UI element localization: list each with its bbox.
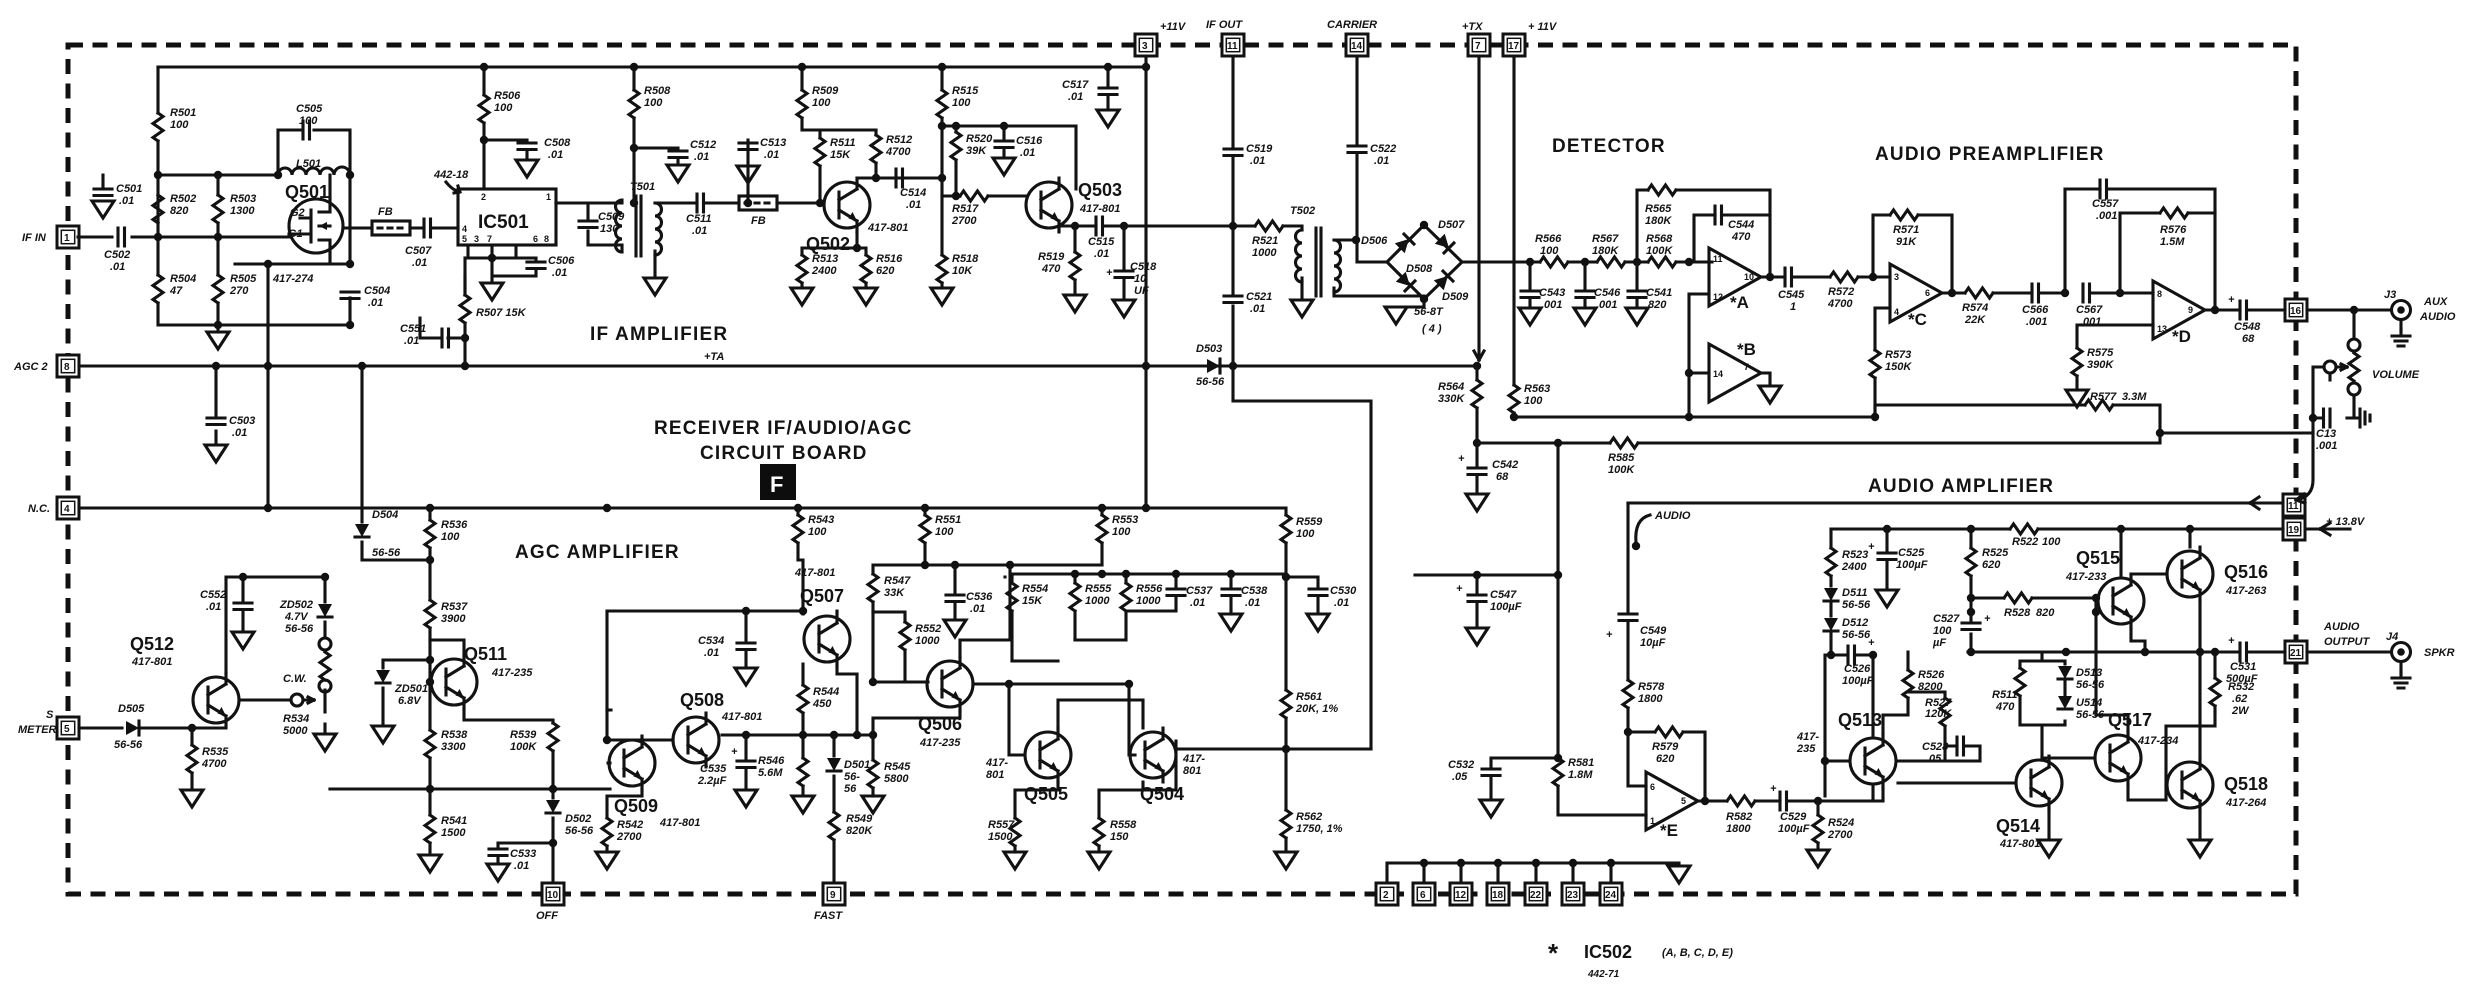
- svg-text:C.W.: C.W.: [283, 673, 307, 685]
- svg-text:442-71: 442-71: [1587, 969, 1620, 980]
- wire: AGC node bus: [330, 787, 610, 790]
- resistor R545 5800: [868, 760, 878, 788]
- wire: T501 secondary: [622, 203, 697, 278]
- wire: audio feed line to connector 11: [1628, 497, 2283, 509]
- svg-text:180K: 180K: [1645, 215, 1672, 227]
- wire: Q513 base/emitter: [1825, 655, 1883, 801]
- svg-text:C546: C546: [1594, 287, 1621, 299]
- svg-text:*: *: [1548, 938, 1559, 968]
- svg-text:9: 9: [830, 890, 836, 901]
- capacitor C517 .01: [1106, 67, 1109, 110]
- svg-text:Q512: Q512: [130, 634, 174, 654]
- capacitor C530 .01: [1286, 577, 1318, 614]
- svg-text:.01: .01: [404, 335, 419, 347]
- svg-text:+TX: +TX: [1462, 21, 1483, 33]
- svg-text:417-801: 417-801: [794, 567, 835, 579]
- wire: T502 secondary to bridge: [1334, 240, 1424, 299]
- svg-text:.001: .001: [1541, 299, 1562, 311]
- svg-text:D511: D511: [1842, 587, 1867, 599]
- svg-text:100µF: 100µF: [1778, 823, 1810, 835]
- svg-text:R536: R536: [441, 519, 468, 531]
- capacitor C545 1: [1785, 268, 1792, 286]
- svg-text:C528: C528: [1922, 741, 1949, 753]
- svg-text:Q503: Q503: [1078, 180, 1122, 200]
- svg-text:33K: 33K: [884, 587, 905, 599]
- wire: opamp E output: [1698, 786, 1873, 801]
- svg-text:.01: .01: [1245, 597, 1260, 609]
- svg-text:.01: .01: [1094, 248, 1109, 260]
- svg-text:56-56: 56-56: [1842, 629, 1871, 641]
- wire: IF OUT column: [1233, 56, 1371, 749]
- svg-text:C566: C566: [2022, 304, 2049, 316]
- svg-text:.01: .01: [906, 199, 921, 211]
- ground: C503: [205, 445, 227, 462]
- svg-text:3.3M: 3.3M: [2122, 391, 2147, 403]
- svg-text:T502: T502: [1290, 205, 1315, 217]
- svg-text:5000: 5000: [283, 725, 308, 737]
- svg-text:D509: D509: [1442, 291, 1469, 303]
- svg-text:5: 5: [1681, 796, 1686, 806]
- wire: Q507 emitter/base: [803, 611, 857, 735]
- svg-text:1: 1: [1790, 301, 1796, 313]
- transistor Q502: [824, 178, 870, 232]
- svg-text:2.2µF: 2.2µF: [697, 775, 727, 787]
- svg-text:AUDIO: AUDIO: [2323, 621, 2360, 633]
- svg-text:.01: .01: [514, 860, 529, 872]
- svg-text:1750, 1%: 1750, 1%: [1296, 823, 1343, 835]
- ground: C538: [1220, 614, 1242, 631]
- svg-text:.05: .05: [1926, 753, 1942, 765]
- svg-text:3: 3: [1142, 41, 1148, 52]
- svg-text:R553: R553: [1112, 514, 1138, 526]
- svg-text:.01: .01: [764, 149, 779, 161]
- transistor Q509: [609, 736, 655, 790]
- ground: Q518: [2189, 840, 2211, 857]
- svg-text:2400: 2400: [1841, 561, 1867, 573]
- capacitor C528 .05: [1957, 737, 1964, 755]
- svg-text:R578: R578: [1638, 681, 1665, 693]
- resistor R539 100K: [548, 723, 558, 751]
- svg-text:µF: µF: [1932, 637, 1946, 649]
- wire: aux audio output: [2307, 308, 2391, 311]
- wire: Q515/Q516: [2096, 529, 2200, 652]
- svg-text:D501: D501: [844, 759, 870, 771]
- svg-text:.01: .01: [548, 149, 563, 161]
- ground: C512: [667, 165, 689, 182]
- op-amp U IC502B: [1709, 344, 1761, 402]
- svg-text:AUDIO AMPLIFIER: AUDIO AMPLIFIER: [1868, 476, 2054, 497]
- svg-text:4: 4: [1894, 307, 1899, 317]
- svg-text:2700: 2700: [1827, 829, 1853, 841]
- svg-text:AGC AMPLIFIER: AGC AMPLIFIER: [515, 542, 680, 563]
- transistor Q516: [2167, 547, 2213, 601]
- wire: Q506 emitter/collector: [873, 565, 1010, 760]
- resistor R515 100: [940, 67, 943, 126]
- diode D501: [832, 735, 835, 883]
- ground: C501: [92, 201, 114, 218]
- svg-text:DETECTOR: DETECTOR: [1552, 136, 1666, 157]
- ground: C508: [516, 160, 538, 177]
- svg-text:R528: R528: [2004, 607, 2031, 619]
- ground: spkr jack: [2399, 662, 2402, 672]
- svg-text:R523: R523: [1842, 549, 1868, 561]
- svg-text:235: 235: [1796, 743, 1816, 755]
- capacitor C537 .01: [1167, 589, 1185, 596]
- resistor R505 270: [213, 275, 223, 303]
- svg-text:R513: R513: [812, 253, 838, 265]
- svg-text:R564: R564: [1438, 381, 1464, 393]
- ground: C534: [735, 668, 757, 685]
- svg-text:J3: J3: [2384, 289, 2396, 301]
- svg-text:*C: *C: [1908, 310, 1927, 329]
- svg-text:AUDIO: AUDIO: [1654, 510, 1691, 522]
- svg-text:D505: D505: [118, 703, 145, 715]
- capacitor C567 .001: [2083, 284, 2090, 302]
- capacitor C504 .01: [341, 292, 359, 299]
- svg-text:.01: .01: [110, 261, 125, 273]
- svg-text:820: 820: [170, 205, 189, 217]
- svg-text:4700: 4700: [201, 758, 227, 770]
- svg-text:D503: D503: [1196, 343, 1222, 355]
- svg-text:4700: 4700: [885, 146, 911, 158]
- svg-text:3: 3: [1894, 272, 1899, 282]
- svg-text:IF AMPLIFIER: IF AMPLIFIER: [590, 324, 728, 345]
- svg-text:100K: 100K: [510, 741, 537, 753]
- resistor R511 15K: [820, 130, 876, 203]
- svg-text:330K: 330K: [1438, 393, 1465, 405]
- svg-text:D507: D507: [1438, 219, 1465, 231]
- svg-text:10: 10: [1134, 273, 1147, 285]
- ground: R516: [855, 288, 877, 305]
- svg-text:801: 801: [1183, 765, 1201, 777]
- ground: R546: [792, 796, 814, 813]
- svg-text:15K: 15K: [830, 149, 851, 161]
- svg-text:R511: R511: [830, 137, 855, 149]
- svg-text:56-: 56-: [844, 771, 860, 783]
- svg-text:ZD501: ZD501: [394, 683, 428, 695]
- svg-text:R568: R568: [1646, 233, 1673, 245]
- diode D512: [1829, 601, 1832, 616]
- ground: C532: [1480, 800, 1502, 817]
- svg-text:IC502: IC502: [1584, 942, 1632, 962]
- capacitor C531 500uF: [2240, 643, 2247, 661]
- connector 8 AGC 2: [57, 355, 79, 377]
- svg-text:R545: R545: [884, 761, 911, 773]
- capacitor C515 .01: [1096, 217, 1103, 235]
- svg-text:METER: METER: [18, 724, 57, 736]
- ground: C533: [487, 864, 509, 881]
- svg-text:620: 620: [1656, 753, 1675, 765]
- svg-text:620: 620: [876, 265, 895, 277]
- svg-text:R519: R519: [1038, 251, 1065, 263]
- svg-text:19: 19: [2288, 525, 2300, 536]
- svg-text:11: 11: [2288, 501, 2299, 512]
- svg-text:+: +: [1868, 637, 1875, 649]
- op-amp U IC502A: [1709, 248, 1761, 306]
- svg-text:R516: R516: [876, 253, 903, 265]
- capacitor C521 .01: [1224, 296, 1242, 303]
- capacitor C522 .01: [1348, 146, 1366, 153]
- ferrite bead FB2: [739, 196, 777, 210]
- svg-text:+ 13.8V: + 13.8V: [2326, 516, 2366, 528]
- wire: opamp D output: [2205, 308, 2285, 311]
- wire: bridge output / ground: [1396, 262, 1530, 307]
- svg-text:417-: 417-: [985, 757, 1008, 769]
- svg-text:C531: C531: [2230, 661, 2256, 673]
- wire: +11V (17) column to opamp supply bus: [1512, 56, 1515, 417]
- svg-text:C545: C545: [1778, 289, 1805, 301]
- svg-text:D506: D506: [1361, 235, 1388, 247]
- svg-text:100: 100: [952, 97, 971, 109]
- svg-text:RECEIVER IF/AUDIO/AGC: RECEIVER IF/AUDIO/AGC: [654, 418, 913, 439]
- resistor R576 1.5M feedback: [2120, 213, 2215, 293]
- capacitor C507 .01: [424, 219, 431, 237]
- wire: R554/R555/R556 bottoms: [1012, 611, 1126, 661]
- transistor Q515: [2098, 574, 2144, 628]
- resistor R577 3.3M: [2085, 400, 2113, 410]
- svg-text:R508: R508: [644, 85, 671, 97]
- svg-text:R546: R546: [758, 755, 785, 767]
- svg-text:R576: R576: [2160, 224, 2187, 236]
- svg-text:R574: R574: [1962, 302, 1988, 314]
- svg-text:2: 2: [481, 192, 486, 202]
- svg-text:+: +: [1106, 267, 1113, 279]
- ground: connector row: [1668, 866, 1690, 883]
- jack J3 AUX AUDIO: [2392, 301, 2411, 320]
- capacitor C538 .01: [1222, 589, 1240, 596]
- capacitor C532 .05: [1491, 758, 1558, 800]
- resistor R563 100: [1509, 385, 1519, 413]
- ground: C530: [1307, 614, 1329, 631]
- ground: R575: [2066, 390, 2088, 407]
- svg-text:C13: C13: [2316, 428, 2336, 440]
- capacitor C536 .01: [946, 595, 964, 602]
- ground: opamp B: [1759, 386, 1781, 403]
- resistor R503 1300: [213, 195, 223, 223]
- svg-text:U514: U514: [2076, 697, 2102, 709]
- resistor R528 820: [1971, 598, 2098, 612]
- svg-text:R571: R571: [1893, 224, 1919, 236]
- svg-text:+: +: [1770, 783, 1777, 795]
- svg-text:11: 11: [1713, 254, 1723, 264]
- svg-text:F: F: [770, 472, 783, 497]
- svg-text:IC501: IC501: [478, 212, 529, 233]
- ground: IC501: [481, 283, 503, 300]
- resistor R561 20K 1%: [1284, 577, 1287, 749]
- svg-text:SPKR: SPKR: [2424, 647, 2455, 659]
- svg-text:.01: .01: [1068, 91, 1083, 103]
- svg-text:6: 6: [533, 234, 538, 244]
- wire: Q507 collector node: [607, 560, 803, 710]
- svg-text:R538: R538: [441, 729, 468, 741]
- resistor R521 1000: [1255, 221, 1283, 231]
- svg-text:100µF: 100µF: [1896, 559, 1928, 571]
- capacitor C547 100uF: [1415, 575, 1558, 628]
- svg-text:FB: FB: [751, 215, 766, 227]
- svg-text:C567: C567: [2076, 304, 2103, 316]
- svg-text:5: 5: [462, 234, 467, 244]
- ground: ZD501: [372, 726, 394, 743]
- svg-text:120K: 120K: [1925, 708, 1952, 720]
- svg-text:R539: R539: [510, 729, 537, 741]
- resistor R573 150K: [1870, 350, 1880, 378]
- wire: R585 100K line: [1477, 433, 2160, 443]
- connector 16 aux audio out: [2285, 299, 2307, 321]
- transistor Q508: [673, 713, 719, 767]
- connector 14 CARRIER: [1346, 34, 1368, 56]
- svg-text:1000: 1000: [915, 635, 940, 647]
- svg-text:C526: C526: [1844, 663, 1871, 675]
- svg-text:+: +: [731, 746, 738, 758]
- svg-text:C505: C505: [296, 103, 323, 115]
- svg-text:417-801: 417-801: [1079, 203, 1120, 215]
- svg-text:C527: C527: [1933, 613, 1960, 625]
- resistor R525 620: [1969, 529, 1972, 598]
- ground: C547: [1466, 628, 1488, 645]
- svg-text:8: 8: [64, 362, 70, 373]
- capacitor C503 .01: [214, 366, 217, 445]
- op-amp U IC502E: [1628, 732, 1646, 786]
- op-amp U IC502C: [1890, 264, 1942, 322]
- capacitor C516 .01: [1002, 126, 1005, 158]
- svg-text:C507: C507: [405, 245, 432, 257]
- svg-text:1000: 1000: [1136, 595, 1161, 607]
- svg-text:10: 10: [547, 890, 559, 901]
- connector 7 +TX: [1468, 34, 1490, 56]
- ground: C517: [1097, 110, 1119, 127]
- svg-text:+: +: [1458, 453, 1465, 465]
- svg-text:180K: 180K: [1592, 245, 1619, 257]
- svg-text:G1: G1: [288, 228, 303, 240]
- transistor Q518: [2167, 758, 2213, 812]
- op-amp U IC502D: [2153, 281, 2205, 339]
- capacitor C511 .01: [697, 194, 704, 212]
- capacitor C518 10uF: [1122, 226, 1125, 300]
- wire: CARRIER column: [1357, 56, 1387, 262]
- transistor Q505: [1025, 728, 1071, 782]
- svg-text:R541: R541: [441, 815, 467, 827]
- zener ZD501 6.8V: [383, 660, 430, 726]
- resistor R542 2700: [602, 818, 612, 846]
- resistor R523 2400: [1829, 529, 1832, 586]
- svg-text:*B: *B: [1737, 340, 1756, 359]
- svg-text:C538: C538: [1241, 585, 1268, 597]
- wire: Q503 emitter out: [1059, 226, 1255, 232]
- connector 1 IF IN: [57, 226, 79, 248]
- resistor R564 330K: [1475, 366, 1478, 443]
- svg-text:Q515: Q515: [2076, 548, 2120, 568]
- svg-text:R566: R566: [1535, 233, 1562, 245]
- capacitor C505 100: [278, 130, 350, 175]
- svg-text:6: 6: [1420, 890, 1426, 901]
- svg-text:100µF: 100µF: [1490, 601, 1522, 613]
- svg-text:12: 12: [1713, 292, 1723, 302]
- svg-text:3900: 3900: [441, 613, 466, 625]
- svg-text:1500: 1500: [441, 827, 466, 839]
- svg-text:OFF: OFF: [536, 910, 558, 922]
- capacitor C541 820: [1635, 262, 1638, 308]
- svg-text:820: 820: [1648, 299, 1667, 311]
- svg-text:FAST: FAST: [814, 910, 843, 922]
- svg-text:C551: C551: [400, 323, 426, 335]
- svg-text:Q508: Q508: [680, 690, 724, 710]
- wire: Q517: [2042, 612, 2166, 800]
- svg-text:417-: 417-: [1182, 753, 1205, 765]
- resistor R508 100: [632, 67, 635, 203]
- svg-text:R505: R505: [230, 273, 257, 285]
- resistor R567 180K: [1597, 257, 1625, 267]
- wire: Q518: [2166, 652, 2200, 840]
- wire: Q503 bias line: [920, 126, 1076, 255]
- svg-text:C504: C504: [364, 285, 390, 297]
- svg-text:CIRCUIT BOARD: CIRCUIT BOARD: [700, 443, 868, 464]
- ground: R504/R505: [216, 325, 219, 332]
- svg-text:+: +: [1868, 541, 1875, 553]
- transistor Q517: [2095, 731, 2141, 785]
- svg-text:L501: L501: [296, 158, 321, 170]
- resistor R549 820K: [829, 812, 839, 840]
- diode D504: [362, 366, 430, 560]
- svg-text:C512: C512: [690, 139, 716, 151]
- svg-text:417-263: 417-263: [2225, 585, 2266, 597]
- svg-text:R544: R544: [813, 686, 839, 698]
- svg-text:C547: C547: [1490, 589, 1517, 601]
- svg-text:R565: R565: [1645, 203, 1672, 215]
- capacitor C543 .001: [1528, 262, 1531, 308]
- resistor R574 22K: [1965, 288, 1993, 298]
- svg-text:4: 4: [64, 504, 70, 515]
- svg-text:417-: 417-: [1796, 731, 1819, 743]
- diode D511: [1824, 588, 1838, 601]
- capacitor C549 10uF: [1619, 614, 1637, 621]
- inductor L501: [278, 167, 350, 175]
- svg-text:R562: R562: [1296, 811, 1322, 823]
- svg-text:C533: C533: [510, 848, 536, 860]
- svg-text:1000: 1000: [1085, 595, 1110, 607]
- svg-text:15K: 15K: [1022, 595, 1043, 607]
- svg-text:R511: R511: [1992, 689, 2017, 701]
- svg-text:R585: R585: [1608, 452, 1635, 464]
- svg-text:UF: UF: [1134, 285, 1149, 297]
- svg-text:18: 18: [1492, 890, 1504, 901]
- svg-text:R555: R555: [1085, 583, 1112, 595]
- resistor R555 1000: [1070, 583, 1080, 611]
- svg-text:56-56: 56-56: [1196, 376, 1225, 388]
- resistor R578 1800: [1623, 680, 1633, 708]
- wire: Q501 source column down: [266, 264, 269, 508]
- svg-text:C532: C532: [1448, 759, 1474, 771]
- wire: cluster top bus: [1005, 565, 1102, 577]
- wire: Q508/Q509 coupling: [330, 710, 673, 818]
- svg-text:2400: 2400: [811, 265, 837, 277]
- svg-text:.01: .01: [1250, 303, 1265, 315]
- svg-text:417-801: 417-801: [867, 222, 908, 234]
- svg-text:R532: R532: [2228, 681, 2254, 693]
- wire: Q506 bias node: [873, 565, 1010, 682]
- wire: Q504/Q505 bases and collectors: [1009, 640, 1143, 755]
- node F board marker: [760, 464, 796, 500]
- transformer T502: [1296, 230, 1303, 282]
- svg-text:470: 470: [1731, 231, 1751, 243]
- ground: R519: [1064, 295, 1086, 312]
- svg-text:100K: 100K: [1608, 464, 1635, 476]
- bottom connector row 2,6,12,18,22,23,24: [1376, 883, 1398, 905]
- ground: T502: [1291, 300, 1313, 317]
- wire: AGC2 bus: [79, 364, 1477, 367]
- svg-text:24: 24: [1605, 890, 1617, 901]
- svg-text:Q518: Q518: [2224, 774, 2268, 794]
- connector 11 volume return: [2283, 494, 2305, 516]
